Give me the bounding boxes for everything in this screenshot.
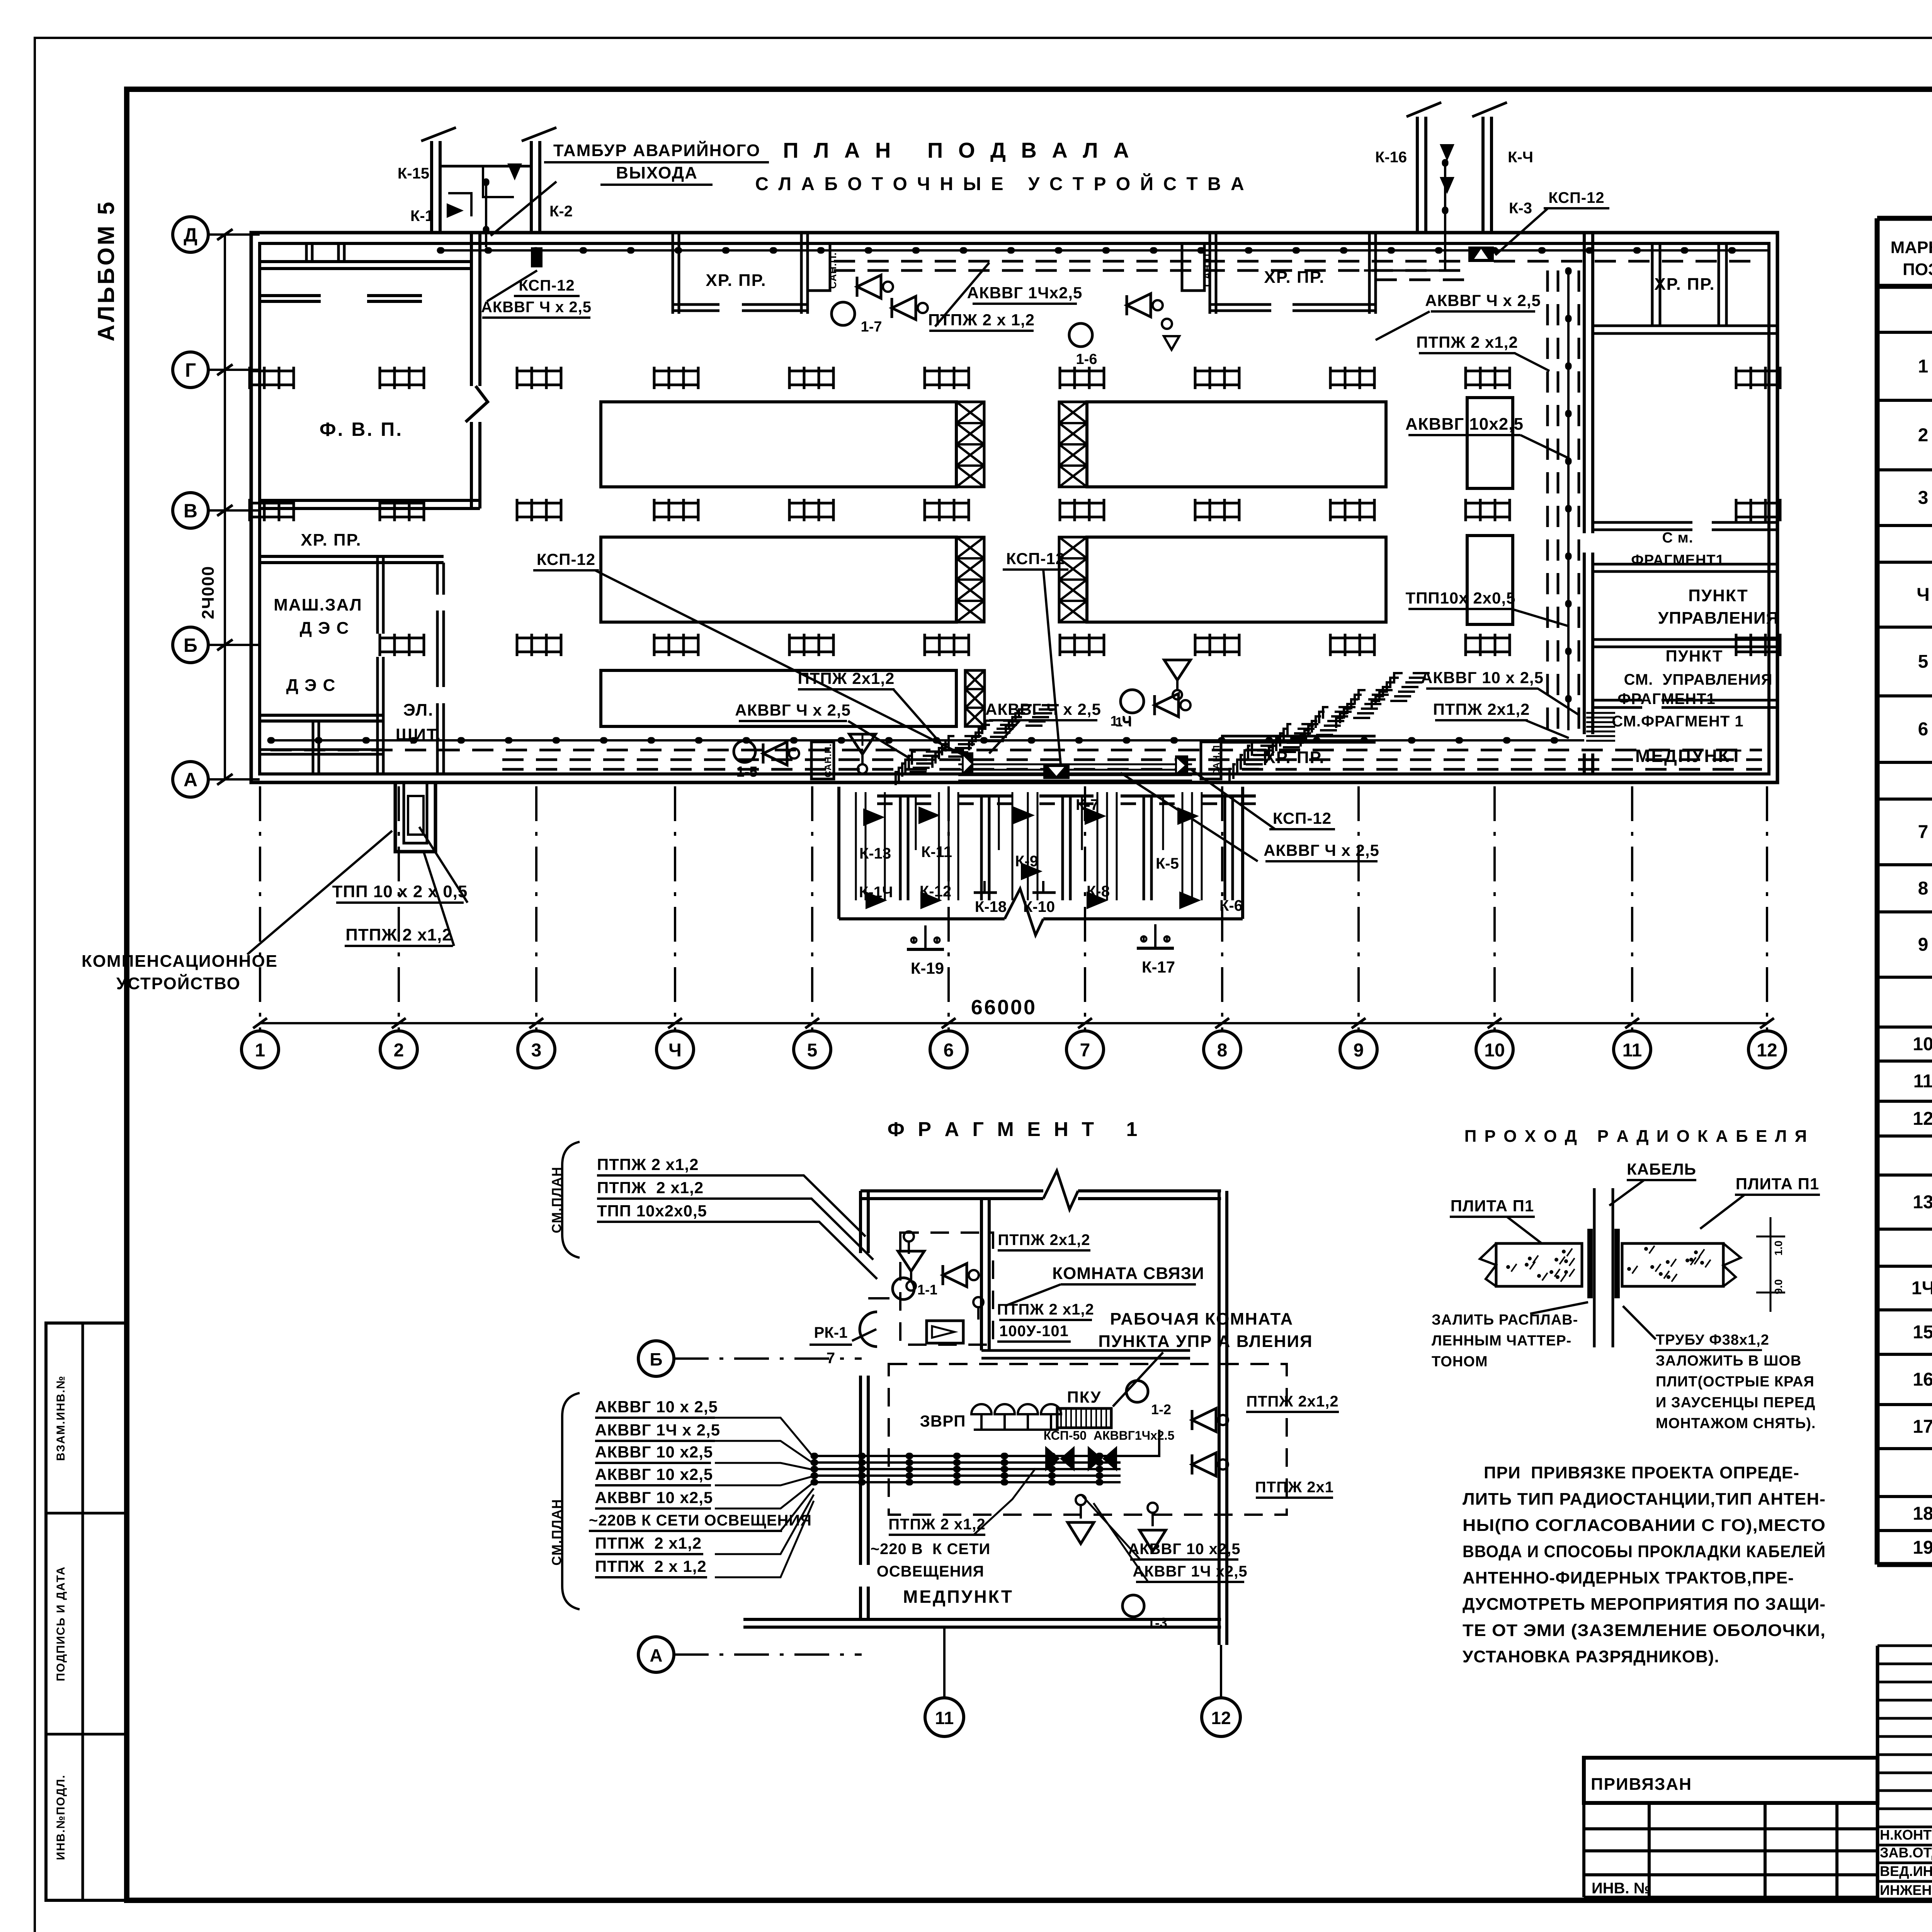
svg-text:К-2: К-2 (549, 203, 573, 220)
svg-text:ИНЖЕНЕР: ИНЖЕНЕР (1880, 1882, 1932, 1898)
svg-text:К-Ч: К-Ч (1508, 149, 1533, 166)
wall y1440 (260, 555, 444, 558)
svg-text:ИНВ. №: ИНВ. № (1592, 1880, 1651, 1897)
svg-text:А: А (650, 1645, 662, 1665)
svg-text:100У-101: 100У-101 (999, 1323, 1069, 1340)
bottom axis bubbles (241, 1031, 279, 1068)
svg-text:19: 19 (1913, 1537, 1932, 1558)
svg-text:К-19: К-19 (911, 959, 944, 977)
svg-text:ПЛИТА П1: ПЛИТА П1 (1451, 1197, 1534, 1215)
svg-text:К-1Ч: К-1Ч (859, 884, 893, 901)
svg-text:ПТПЖ 2 х1,2: ПТПЖ 2 х1,2 (595, 1534, 702, 1552)
svg-text:Б: Б (184, 634, 197, 656)
svg-text:АКВВГ 10 х2,5: АКВВГ 10 х2,5 (595, 1465, 713, 1483)
svg-text:7: 7 (1080, 1040, 1090, 1061)
vertical dimension line (224, 235, 226, 779)
svg-text:12: 12 (1913, 1109, 1932, 1129)
svg-text:К-13: К-13 (859, 845, 891, 862)
svg-text:ТПП 10 х 2 х 0,5: ТПП 10 х 2 х 0,5 (332, 882, 468, 901)
svg-text:Д Э С: Д Э С (300, 619, 350, 638)
leaders from labels to wall (709, 1175, 866, 1236)
svg-text:ВЗАМ.ИНВ.№: ВЗАМ.ИНВ.№ (54, 1375, 67, 1461)
svg-text:3: 3 (531, 1040, 542, 1061)
svg-text:8: 8 (1918, 878, 1929, 899)
svg-text:Г: Г (185, 359, 196, 381)
compensating device (395, 782, 435, 852)
svg-text:3: 3 (1918, 488, 1929, 508)
fragment bottom axis bubbles (925, 1698, 964, 1736)
svg-text:АНТЕННО-ФИДЕРНЫХ ТРАКТОВ,ПРЕ-: АНТЕННО-ФИДЕРНЫХ ТРАКТОВ,ПРЕ- (1463, 1568, 1794, 1587)
svg-text:К-10: К-10 (1023, 898, 1055, 915)
dim ticks (1756, 1236, 1785, 1238)
svg-text:1-3: 1-3 (1147, 1615, 1167, 1631)
svg-text:ЛИТЬ ТИП РАДИОСТАНЦИИ,ТИП АНТЕ: ЛИТЬ ТИП РАДИОСТАНЦИИ,ТИП АНТЕН- (1463, 1490, 1826, 1509)
fragment top leader labels (562, 1142, 580, 1258)
svg-text:АКВВГ Ч х 2,5: АКВВГ Ч х 2,5 (1264, 841, 1379, 859)
vertical cable bundle right (1546, 270, 1549, 730)
svg-text:ПУНКТ: ПУНКТ (1666, 647, 1723, 665)
svg-text:АКВВГ 10х2,5: АКВВГ 10х2,5 (1405, 415, 1524, 434)
svg-text:РК-1: РК-1 (814, 1324, 848, 1341)
svg-text:ФРАГМЕНТ1: ФРАГМЕНТ1 (1617, 690, 1715, 707)
svg-text:СМ.ФРАГМЕНТ 1: СМ.ФРАГМЕНТ 1 (1612, 713, 1743, 730)
ksp boxes (black) (962, 752, 973, 776)
svg-text:С м.: С м. (1662, 530, 1694, 546)
svg-text:КАБЕЛЬ: КАБЕЛЬ (1627, 1160, 1696, 1178)
svg-text:Ф. В. П.: Ф. В. П. (320, 418, 403, 440)
svg-text:5: 5 (1918, 651, 1929, 672)
svg-text:К-15: К-15 (398, 165, 429, 182)
B axis (638, 1341, 674, 1376)
cable through (1593, 1188, 1596, 1347)
svg-text:Ч: Ч (668, 1040, 682, 1061)
svg-text:ПЛИТ(ОСТРЫЕ КРАЯ: ПЛИТ(ОСТРЫЕ КРАЯ (1656, 1374, 1815, 1390)
dotted bundle (814, 1455, 1121, 1457)
cluster wires (855, 792, 857, 900)
svg-text:К-5: К-5 (1156, 855, 1179, 872)
svg-text:ТАМБУР АВАРИЙНОГО: ТАМБУР АВАРИЙНОГО (553, 140, 760, 160)
tambour1 wiring symbols (447, 203, 464, 218)
ground symbols K-19 K-17 (924, 925, 927, 949)
svg-text:ПТПЖ 2 х 1,2: ПТПЖ 2 х 1,2 (928, 311, 1035, 329)
privyazan block (1584, 1758, 1878, 1803)
svg-text:КСП-12: КСП-12 (519, 277, 575, 294)
svg-text:УСТРОЙСТВО: УСТРОЙСТВО (116, 973, 241, 993)
svg-text:СМ.ПЛАН: СМ.ПЛАН (549, 1166, 564, 1233)
svg-text:ПОЗ.: ПОЗ. (1903, 260, 1932, 279)
A axis (638, 1637, 674, 1672)
svg-text:К-8: К-8 (1087, 883, 1110, 900)
svg-text:МОНТАЖОМ СНЯТЬ).: МОНТАЖОМ СНЯТЬ). (1656, 1415, 1816, 1432)
svg-text:ПТПЖ 2 х1,2: ПТПЖ 2 х1,2 (997, 1301, 1094, 1318)
cluster door contact combs (837, 787, 840, 919)
svg-text:КОМНАТА СВЯЗИ: КОМНАТА СВЯЗИ (1052, 1264, 1204, 1283)
svg-text:ТПП 10х2х0,5: ТПП 10х2х0,5 (597, 1202, 707, 1220)
svg-text:А: А (184, 769, 197, 791)
fragment symbols top (898, 1251, 924, 1271)
svg-text:Д: Д (184, 224, 197, 246)
svg-text:УПРАВЛЕНИЯ: УПРАВЛЕНИЯ (1658, 609, 1779, 628)
svg-text:66000: 66000 (971, 996, 1037, 1019)
black bowties (1045, 1446, 1075, 1471)
svg-text:Д Э С: Д Э С (286, 676, 336, 695)
svg-text:ПОДПИСЬ И ДАТА: ПОДПИСЬ И ДАТА (54, 1566, 67, 1681)
fragment connectors right (1586, 712, 1615, 714)
svg-text:Н.КОНТР.: Н.КОНТР. (1880, 1827, 1932, 1843)
svg-text:ПУНКТА УПР А ВЛЕНИЯ: ПУНКТА УПР А ВЛЕНИЯ (1098, 1332, 1313, 1351)
bottom-left sanp box (811, 742, 834, 779)
svg-text:КСП-12: КСП-12 (1548, 189, 1604, 206)
svg-text:АКВВГ 1Ч х 2,5: АКВВГ 1Ч х 2,5 (595, 1421, 720, 1439)
svg-text:11: 11 (1622, 1040, 1642, 1061)
svg-text:АКВВГ 10 х2,5: АКВВГ 10 х2,5 (595, 1488, 713, 1507)
svg-text:ВЕД.ИНЖ: ВЕД.ИНЖ (1880, 1863, 1932, 1879)
svg-text:ТОНОМ: ТОНОМ (1432, 1354, 1488, 1370)
svg-text:6: 6 (944, 1040, 954, 1061)
svg-text:АКВВГ Ч х 2,5: АКВВГ Ч х 2,5 (985, 700, 1101, 718)
svg-text:13: 13 (1913, 1192, 1932, 1213)
svg-text:ПТПЖ 2 х 1,2: ПТПЖ 2 х 1,2 (595, 1557, 707, 1575)
slabs (1480, 1243, 1496, 1286)
tambour 2 (right) (1416, 117, 1419, 233)
lower symbols (1076, 1495, 1086, 1505)
title block small grid (1878, 1645, 1932, 1647)
svg-text:ПТПЖ 2х1,2: ПТПЖ 2х1,2 (1246, 1393, 1338, 1410)
svg-text:10: 10 (1484, 1040, 1505, 1061)
svg-text:МАШ.ЗАЛ: МАШ.ЗАЛ (274, 595, 362, 614)
svg-text:ХР. ПР.: ХР. ПР. (1654, 275, 1715, 294)
svg-text:АКВВГ Ч х 2,5: АКВВГ Ч х 2,5 (1425, 291, 1541, 310)
svg-text:1.0: 1.0 (1772, 1241, 1784, 1256)
svg-text:АКВВГ 10 х 2,5: АКВВГ 10 х 2,5 (595, 1398, 718, 1416)
svg-text:ЭЛ.: ЭЛ. (403, 701, 434, 719)
svg-text:КСП-12: КСП-12 (1006, 549, 1065, 568)
svg-text:К-18: К-18 (975, 898, 1007, 915)
svg-text:СМ.ПЛАН: СМ.ПЛАН (549, 1498, 564, 1565)
tambour 1 (emergency exit) (430, 141, 433, 233)
svg-text:1-7: 1-7 (861, 319, 882, 335)
svg-text:1-2: 1-2 (1151, 1401, 1171, 1417)
cable runs top (440, 249, 1468, 252)
svg-text:1Ч: 1Ч (1116, 715, 1132, 730)
svg-text:12: 12 (1211, 1708, 1231, 1728)
svg-text:1-6: 1-6 (1076, 351, 1097, 367)
svg-text:ХР. ПР.: ХР. ПР. (706, 271, 766, 290)
svg-text:5: 5 (807, 1040, 818, 1061)
svg-text:ЗАЛИТЬ РАСПЛАВ-: ЗАЛИТЬ РАСПЛАВ- (1432, 1312, 1578, 1328)
svg-text:Ч: Ч (1917, 585, 1930, 605)
svg-text:В: В (184, 500, 197, 522)
svg-text:КСП-12: КСП-12 (537, 550, 595, 568)
right rooms (1583, 233, 1586, 533)
svg-text:АКВВГ 10 х 2,5: АКВВГ 10 х 2,5 (1421, 668, 1544, 687)
svg-text:К-1: К-1 (410, 207, 434, 224)
left axis bubbles (173, 217, 208, 252)
svg-text:ПТПЖ 2 х1,2: ПТПЖ 2 х1,2 (888, 1516, 985, 1533)
svg-text:16: 16 (1913, 1369, 1932, 1390)
svg-text:8: 8 (1217, 1040, 1228, 1061)
valves (857, 275, 893, 298)
svg-text:КСП-12: КСП-12 (1273, 809, 1332, 827)
svg-text:ПРИВЯЗАН: ПРИВЯЗАН (1591, 1775, 1692, 1794)
svg-text:РАБОЧАЯ КОМНАТА: РАБОЧАЯ КОМНАТА (1110, 1310, 1294, 1328)
svg-text:11: 11 (1913, 1071, 1932, 1092)
svg-text:МАРКА,: МАРКА, (1891, 238, 1932, 257)
svg-text:МЕДПУНКТ: МЕДПУНКТ (903, 1587, 1014, 1607)
svg-text:1: 1 (1918, 356, 1929, 377)
svg-text:~220 В К СЕТИ: ~220 В К СЕТИ (871, 1541, 991, 1558)
svg-text:АКВВГ 10 х2,5: АКВВГ 10 х2,5 (595, 1443, 713, 1461)
svg-text:УСТАНОВКА РАЗРЯДНИКОВ).: УСТАНОВКА РАЗРЯДНИКОВ). (1463, 1647, 1719, 1666)
svg-text:ХР. ПР.: ХР. ПР. (301, 531, 361, 549)
cluster triangles (863, 808, 885, 826)
svg-text:АКВВГ 1Ч х2,5: АКВВГ 1Ч х2,5 (1133, 1563, 1247, 1580)
left cascade into cluster (912, 705, 1059, 767)
svg-text:НЫ(ПО СОГЛАСОВАНИИ С ГО),МЕСТО: НЫ(ПО СОГЛАСОВАНИИ С ГО),МЕСТО (1463, 1516, 1826, 1535)
svg-text:Ф Р А Г М Е Н Т 1: Ф Р А Г М Е Н Т 1 (888, 1118, 1141, 1141)
speaker circles (832, 302, 855, 325)
svg-text:9: 9 (1354, 1040, 1364, 1061)
svg-text:~220В К СЕТИ ОСВЕЩЕНИЯ: ~220В К СЕТИ ОСВЕЩЕНИЯ (589, 1512, 812, 1529)
svg-text:15: 15 (1913, 1322, 1932, 1343)
svg-text:ОСВЕЩЕНИЯ: ОСВЕЩЕНИЯ (877, 1563, 984, 1580)
svg-text:ПРИ ПРИВЯЗКЕ ПРОЕКТА ОПРЕДЕ-: ПРИ ПРИВЯЗКЕ ПРОЕКТА ОПРЕДЕ- (1484, 1463, 1799, 1482)
svg-text:2: 2 (1918, 425, 1929, 446)
svg-text:ПТПЖ 2 х1,2: ПТПЖ 2 х1,2 (597, 1179, 704, 1197)
svg-text:ФРАГМЕНТ1: ФРАГМЕНТ1 (1631, 552, 1724, 568)
svg-text:ЗАЛОЖИТЬ В ШОВ: ЗАЛОЖИТЬ В ШОВ (1656, 1353, 1801, 1369)
svg-text:ТПП10х 2х0,5: ТПП10х 2х0,5 (1406, 589, 1516, 607)
dim line 66000 (260, 1022, 260, 1022)
svg-text:К-9: К-9 (1015, 853, 1038, 870)
svg-text:ПТПЖ 2 х1,2: ПТПЖ 2 х1,2 (597, 1155, 699, 1173)
storage rectangles (601, 402, 956, 487)
svg-text:ТРУБУ Ф38х1,2: ТРУБУ Ф38х1,2 (1656, 1332, 1769, 1348)
svg-text:ПТПЖ 2х1: ПТПЖ 2х1 (1255, 1479, 1334, 1496)
svg-text:1-1: 1-1 (917, 1282, 937, 1298)
svg-text:1: 1 (255, 1040, 265, 1061)
svg-text:ПУНКТ: ПУНКТ (1688, 586, 1748, 605)
svg-text:ПТПЖ 2х1,2: ПТПЖ 2х1,2 (1433, 700, 1530, 718)
interior walls top-left block (260, 260, 471, 263)
svg-text:ИНВ.№ПОДЛ.: ИНВ.№ПОДЛ. (54, 1774, 67, 1860)
right cascade (1252, 673, 1430, 758)
svg-text:ВЫХОДА: ВЫХОДА (616, 163, 698, 182)
top rooms (672, 233, 674, 314)
svg-text:9.0: 9.0 (1772, 1279, 1784, 1294)
svg-text:ПТПЖ 2х1,2: ПТПЖ 2х1,2 (998, 1231, 1090, 1248)
svg-text:АКВВГ 10 х2,5: АКВВГ 10 х2,5 (1128, 1541, 1240, 1558)
svg-text:АКВВГ Ч х 2,5: АКВВГ Ч х 2,5 (481, 299, 592, 316)
left margin stamp boxes (46, 1323, 126, 1900)
svg-text:ПЛИТА П1: ПЛИТА П1 (1736, 1175, 1819, 1193)
bundle risers to KSP-50 (1121, 1430, 1159, 1456)
fragment dashed rooms (900, 1233, 993, 1345)
svg-text:ЗАВ.ОТД.: ЗАВ.ОТД. (1880, 1845, 1932, 1861)
svg-text:1-5: 1-5 (736, 764, 758, 780)
svg-text:2Ч000: 2Ч000 (199, 566, 218, 619)
svg-text:КСП-50 АКВВГ1Чх2.5: КСП-50 АКВВГ1Чх2.5 (1044, 1429, 1175, 1442)
svg-text:7: 7 (1918, 822, 1929, 842)
svg-text:2: 2 (394, 1040, 404, 1061)
lower label stack (562, 1393, 580, 1609)
svg-text:17: 17 (1913, 1417, 1932, 1437)
leaders to bundle (715, 1418, 814, 1458)
svg-text:К-16: К-16 (1375, 149, 1407, 166)
svg-text:Б: Б (650, 1349, 662, 1369)
svg-text:П Л А Н П О Д В А Л А: П Л А Н П О Д В А Л А (783, 138, 1133, 162)
wall FVP vertical with door break (470, 233, 473, 386)
svg-text:И ЗАУСЕНЦЫ ПЕРЕД: И ЗАУСЕНЦЫ ПЕРЕД (1656, 1395, 1815, 1411)
fragment walls (861, 1189, 1043, 1192)
svg-text:6: 6 (1918, 719, 1929, 740)
lower-left partitions (260, 714, 383, 717)
svg-text:ТЕ ОТ ЭМИ (ЗАЗЕМЛЕНИЕ ОБОЛОЧКИ: ТЕ ОТ ЭМИ (ЗАЗЕМЛЕНИЕ ОБОЛОЧКИ, (1463, 1621, 1826, 1640)
svg-text:ДУСМОТРЕТЬ МЕРОПРИЯТИЯ ПО ЗАЩИ: ДУСМОТРЕТЬ МЕРОПРИЯТИЯ ПО ЗАЩИ- (1463, 1595, 1826, 1614)
svg-text:18: 18 (1913, 1503, 1932, 1524)
bottom corridor cables (270, 739, 1584, 742)
svg-text:ЗВРП: ЗВРП (920, 1412, 966, 1430)
svg-text:СМ. УПРАВЛЕНИЯ: СМ. УПРАВЛЕНИЯ (1624, 671, 1773, 688)
svg-text:ПТПЖ 2 х1,2: ПТПЖ 2 х1,2 (1416, 333, 1518, 351)
svg-text:АКВВГ 1Чх2,5: АКВВГ 1Чх2,5 (967, 284, 1083, 302)
svg-text:К-12: К-12 (920, 883, 951, 900)
bottom-right khr room (1201, 742, 1221, 779)
svg-text:К-3: К-3 (1509, 200, 1532, 217)
building perimeter walls (251, 233, 1777, 782)
svg-text:ЛЕННЫМ ЧАТТЕР-: ЛЕННЫМ ЧАТТЕР- (1432, 1333, 1571, 1349)
svg-text:ВВОДА И СПОСОБЫ ПРОКЛАДКИ КАБЕ: ВВОДА И СПОСОБЫ ПРОКЛАДКИ КАБЕЛЕЙ (1463, 1541, 1826, 1561)
svg-text:АКВВГ Ч х 2,5: АКВВГ Ч х 2,5 (735, 701, 851, 719)
svg-text:11: 11 (935, 1708, 954, 1728)
svg-text:ПКУ: ПКУ (1067, 1388, 1102, 1406)
extra nested dashes below tambour2 (1376, 279, 1466, 281)
svg-text:1Ч: 1Ч (1912, 1278, 1932, 1299)
svg-text:АЛЬБОМ 5: АЛЬБОМ 5 (93, 199, 119, 341)
column symbols (250, 370, 294, 372)
svg-text:9: 9 (1918, 935, 1929, 955)
svg-text:К-7: К-7 (1076, 796, 1099, 813)
svg-text:К-17: К-17 (1142, 958, 1175, 976)
svg-text:САН.П.: САН.П. (1201, 250, 1213, 287)
svg-text:ПТПЖ 2х1,2: ПТПЖ 2х1,2 (798, 669, 895, 687)
svg-text:С Л А Б О Т О Ч Н Ы Е У С Т: С Л А Б О Т О Ч Н Ы Е У С Т Р О Й С Т В … (755, 173, 1246, 194)
partition x1132 (436, 563, 439, 595)
partition x977 (376, 556, 379, 634)
svg-text:10: 10 (1913, 1034, 1932, 1054)
axis V wall (260, 499, 480, 502)
dense bundle above cluster (958, 764, 1192, 765)
svg-text:12: 12 (1757, 1040, 1777, 1061)
svg-text:П Р О Х О Д Р А Д И О К А Б: П Р О Х О Д Р А Д И О К А Б Е Л Я (1464, 1127, 1809, 1146)
